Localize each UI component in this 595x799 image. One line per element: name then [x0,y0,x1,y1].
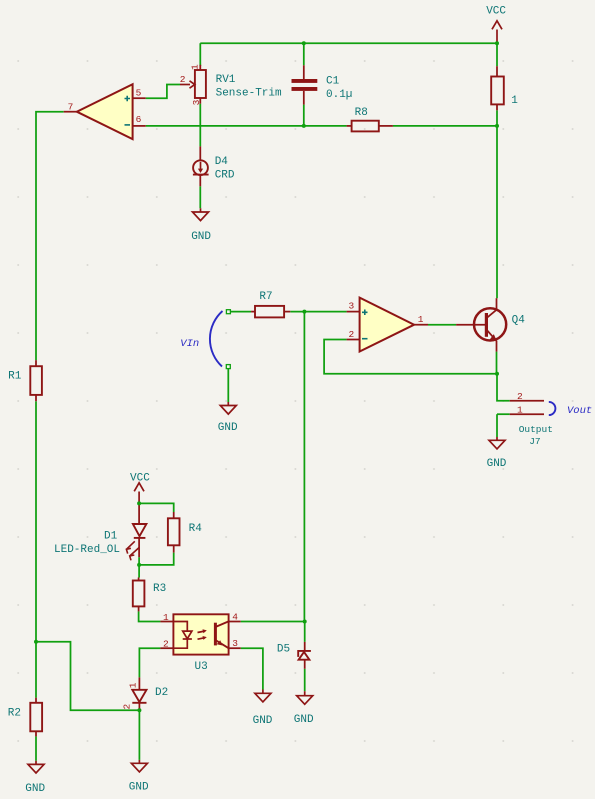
svg-text:LED-Red_OL: LED-Red_OL [54,544,120,556]
svg-text:3: 3 [232,638,238,649]
svg-text:4: 4 [232,612,238,623]
svg-text:D5: D5 [277,644,290,656]
svg-text:GND: GND [487,458,507,470]
svg-text:Vout: Vout [567,405,592,417]
svg-text:1: 1 [511,95,518,107]
svg-text:Output: Output [519,424,553,435]
svg-text:2: 2 [180,74,186,85]
svg-text:1: 1 [128,682,139,688]
svg-text:VIn: VIn [180,338,199,350]
svg-text:2: 2 [349,329,355,340]
svg-text:3: 3 [349,300,355,311]
svg-text:D2: D2 [155,687,168,699]
svg-text:GND: GND [294,714,314,726]
svg-text:GND: GND [191,231,211,243]
svg-text:R3: R3 [153,583,166,595]
svg-text:0.1µ: 0.1µ [326,89,352,101]
svg-text:GND: GND [129,781,149,793]
svg-text:3: 3 [191,99,202,105]
svg-text:1: 1 [190,64,201,70]
svg-text:C1: C1 [326,76,340,88]
svg-text:R7: R7 [259,291,272,303]
svg-text:Q4: Q4 [512,315,526,327]
svg-text:R1: R1 [8,371,22,383]
svg-text:R4: R4 [189,523,203,535]
svg-text:7: 7 [68,102,74,113]
svg-text:GND: GND [25,783,45,795]
svg-text:2: 2 [163,638,169,649]
svg-text:RV1: RV1 [216,74,236,86]
svg-text:6: 6 [136,114,142,125]
svg-text:VCC: VCC [486,5,506,17]
svg-text:2: 2 [517,391,523,402]
svg-text:R8: R8 [355,107,368,119]
svg-text:D1: D1 [104,530,118,542]
svg-text:1: 1 [418,314,424,325]
svg-text:U3: U3 [195,661,208,673]
svg-text:GND: GND [218,422,238,434]
svg-text:1: 1 [163,612,169,623]
svg-text:2: 2 [121,704,132,710]
svg-text:R2: R2 [8,707,21,719]
svg-text:1: 1 [517,405,523,416]
svg-text:Sense-Trim: Sense-Trim [216,87,282,99]
svg-text:D4: D4 [215,156,229,168]
svg-text:CRD: CRD [215,170,235,182]
svg-text:5: 5 [136,87,142,98]
svg-text:GND: GND [253,715,273,727]
svg-text:J7: J7 [529,436,540,447]
svg-text:VCC: VCC [130,473,150,485]
